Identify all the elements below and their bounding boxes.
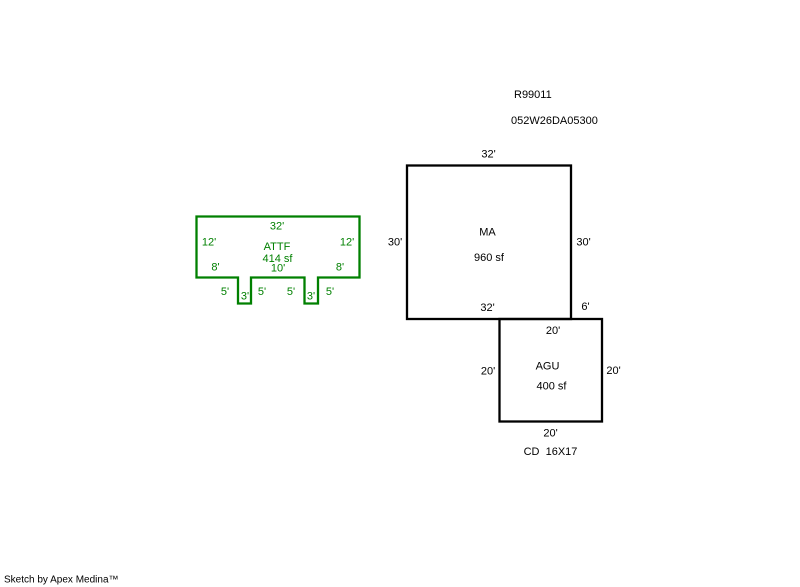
svg-text:10': 10' bbox=[271, 263, 285, 275]
svg-text:20': 20' bbox=[546, 325, 560, 337]
svg-text:AGU: AGU bbox=[536, 361, 560, 373]
svg-text:960 sf: 960 sf bbox=[474, 252, 505, 264]
svg-text:30': 30' bbox=[576, 237, 590, 249]
svg-text:400 sf: 400 sf bbox=[537, 381, 568, 393]
svg-text:ATTF: ATTF bbox=[264, 241, 291, 253]
MA outline bbox=[407, 166, 571, 320]
svg-text:20': 20' bbox=[606, 365, 620, 377]
svg-text:5': 5' bbox=[258, 286, 266, 298]
AGU outline bbox=[500, 319, 603, 422]
svg-text:5': 5' bbox=[287, 286, 295, 298]
svg-text:6': 6' bbox=[581, 301, 589, 313]
svg-text:8': 8' bbox=[336, 262, 344, 274]
svg-text:CD 16X17: CD 16X17 bbox=[524, 446, 578, 458]
svg-text:8': 8' bbox=[211, 262, 219, 274]
svg-text:12': 12' bbox=[340, 237, 354, 249]
svg-text:30': 30' bbox=[388, 237, 402, 249]
svg-text:R99011: R99011 bbox=[514, 89, 552, 101]
svg-text:MA: MA bbox=[479, 227, 496, 239]
svg-text:32': 32' bbox=[480, 302, 494, 314]
svg-text:3': 3' bbox=[241, 291, 249, 303]
svg-text:3': 3' bbox=[307, 291, 315, 303]
svg-text:5': 5' bbox=[221, 286, 229, 298]
svg-text:052W26DA05300: 052W26DA05300 bbox=[511, 115, 598, 127]
svg-text:32': 32' bbox=[481, 149, 495, 161]
ATTF outline bbox=[197, 217, 360, 304]
svg-text:20': 20' bbox=[543, 428, 557, 440]
svg-text:Sketch by Apex Medina™: Sketch by Apex Medina™ bbox=[4, 575, 119, 586]
svg-text:12': 12' bbox=[202, 237, 216, 249]
svg-text:20': 20' bbox=[481, 366, 495, 378]
svg-text:32': 32' bbox=[270, 221, 284, 233]
svg-text:5': 5' bbox=[326, 286, 334, 298]
